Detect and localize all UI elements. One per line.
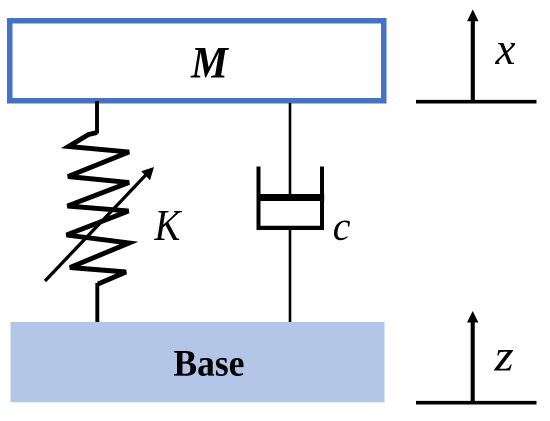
spring K zigzag [67,133,130,285]
damper c cylinder bottom [257,226,325,230]
wire damper bottom rod [289,229,292,322]
arrow through spring (variable) [45,175,146,281]
wire spring top rod [95,101,99,134]
wire damper top rod [289,103,292,197]
label x [495,43,515,64]
wire spring bottom rod [95,283,99,322]
label c [334,221,350,241]
damper c cylinder right wall [320,167,324,230]
x axis arrow [471,20,475,102]
base block [11,322,385,402]
label M [191,48,230,78]
z axis arrow [471,321,475,403]
label z [494,350,513,371]
label Base [174,351,244,376]
mass block M [10,21,384,101]
z axis baseline [416,401,537,405]
damper c cylinder left wall [257,167,261,230]
damper c piston plate [257,194,325,201]
x axis baseline [416,100,537,104]
label K [154,211,182,240]
